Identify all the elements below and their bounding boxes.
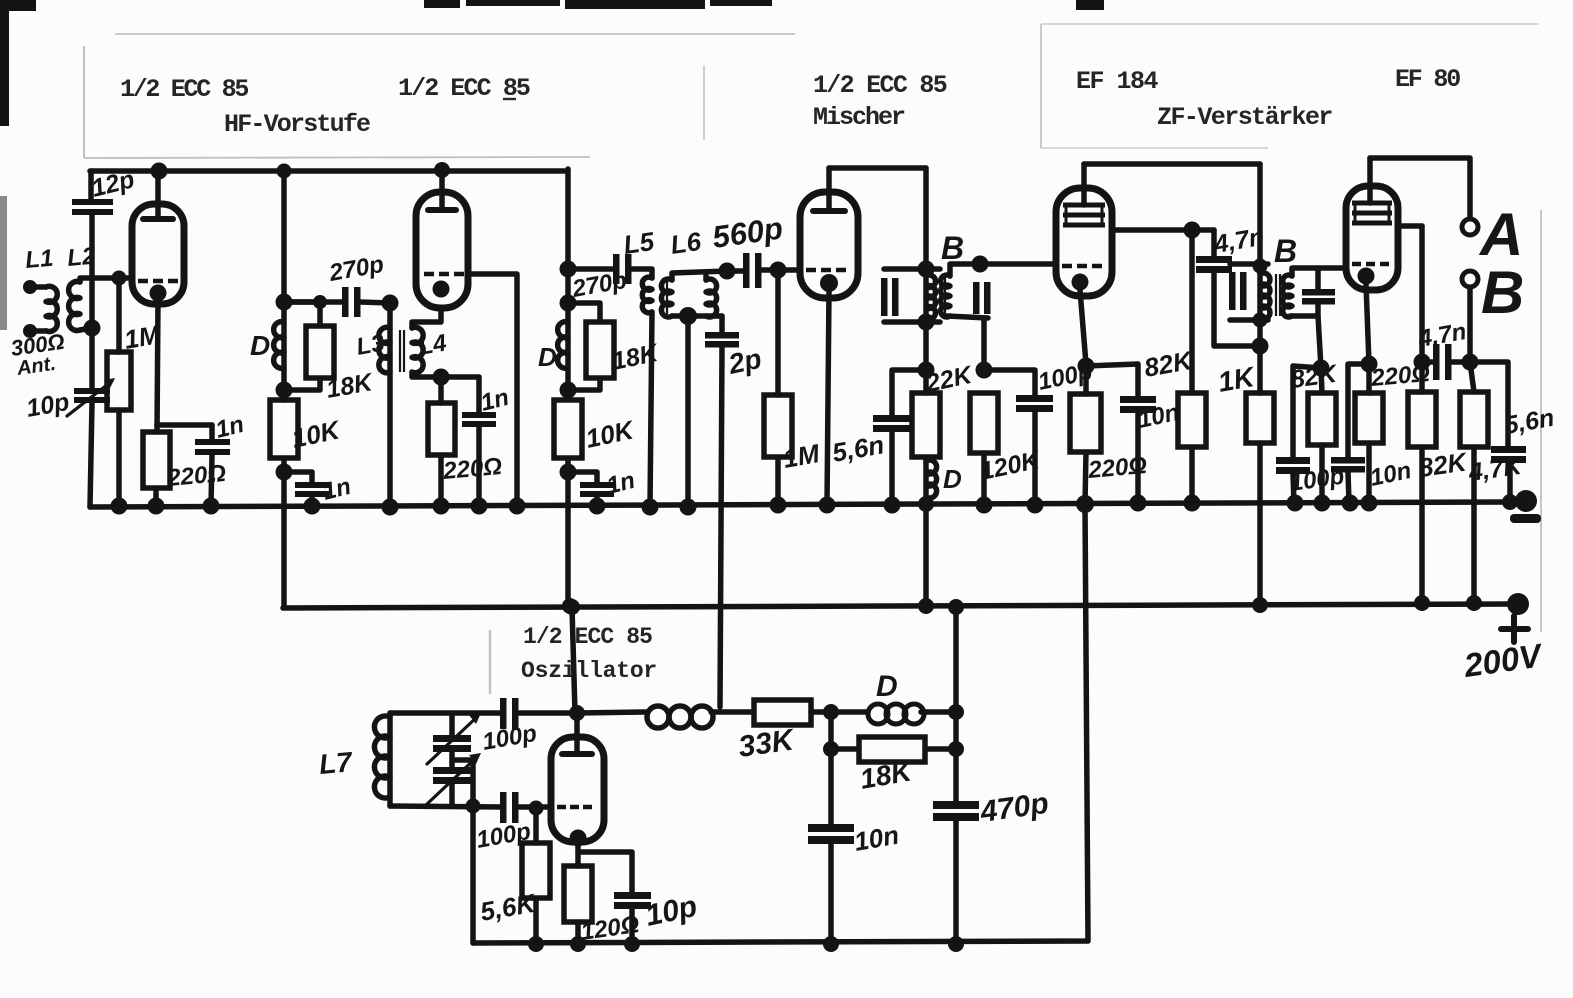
resistor 220Ω stage2	[428, 403, 455, 455]
V5 cathode dot	[1358, 268, 1375, 285]
node: L6 center tap	[679, 307, 697, 325]
wire: V1 plate lead to rail A	[155, 171, 161, 219]
node: 10K bottom / 1n tap	[560, 464, 577, 481]
wire: 100p to plate node	[518, 710, 577, 716]
node: oscillator plate node	[569, 705, 585, 721]
wire: 220Ω top lead	[1083, 366, 1089, 394]
svg-text:220Ω: 220Ω	[165, 460, 227, 492]
V3 grid dashes	[806, 268, 846, 273]
wire: V5 plate rail to terminal A	[1370, 158, 1470, 219]
wire: tank tap down to osc ground rail	[470, 760, 476, 943]
terminal A	[1462, 219, 1478, 235]
wire: rail A left drop to 12p	[88, 171, 94, 201]
wire: 1n bottom to bus	[594, 497, 600, 506]
antenna terminal upper	[23, 280, 37, 294]
wire: 1M bottom lead	[116, 410, 122, 506]
wire: L4 top to V2 cathode	[412, 308, 441, 328]
resistor 1M	[107, 352, 131, 410]
resistor 10K stage1	[270, 400, 298, 458]
node: D right / 470p	[948, 704, 964, 720]
wire: B2 secondary top bar to EF80 grid	[1292, 268, 1346, 276]
ground bus end blob terminal	[1515, 490, 1537, 512]
minus symbol	[1510, 514, 1541, 523]
svg-text:D: D	[943, 464, 962, 494]
wire: V6 plate lead	[574, 713, 580, 754]
node: chain at +200V rail	[918, 598, 934, 614]
wire: V3 plate rail to B-filter	[829, 165, 926, 171]
resistor 5,6K	[522, 843, 550, 898]
resistor 22K mixer grid	[912, 393, 940, 457]
node: 1n at ground bus	[304, 498, 321, 515]
wire: 100p to V6 grid	[518, 804, 551, 810]
node: cathode 220Ω/10n	[1078, 358, 1095, 375]
resistor 1K screen feed	[1246, 393, 1274, 443]
wire: 100p bottom to bus	[1032, 412, 1038, 505]
node: 22K top	[918, 362, 935, 379]
node: 5,6n at ground bus	[1502, 494, 1518, 510]
wire: 4,7K bottom to +200V rail	[1471, 447, 1477, 603]
node: 220Ω at ground bus	[1361, 495, 1378, 512]
node: cathode 220Ω/10n	[1361, 356, 1378, 373]
capacitor 270p stage2	[613, 254, 632, 284]
capacitor 4,7n ratio line	[1433, 344, 1452, 380]
node: D2/18K top	[560, 295, 577, 312]
node: B1 primary bottom	[918, 314, 935, 331]
wire: 18K bottom stub	[568, 378, 600, 390]
+200V supply rail wire	[283, 604, 1517, 608]
capacitor B1 primary	[881, 278, 899, 316]
wire: B1 secondary bottom bar	[947, 316, 988, 318]
wire: tank bottom bar	[390, 806, 502, 807]
transformer core B2	[1276, 274, 1280, 316]
wire: 18K bottom stub	[284, 378, 320, 390]
resistor 1M mixer	[764, 395, 792, 457]
node: oscillator feed at +200V rail	[564, 599, 580, 615]
node: 5,6K at osc rail	[528, 936, 544, 952]
svg-text:D: D	[538, 342, 557, 372]
node: L3 at ground bus	[382, 499, 399, 516]
capacitor 1n cathode bypass	[195, 439, 230, 455]
svg-text:B: B	[1481, 259, 1524, 326]
wire: 1n stage2 grid tap	[568, 472, 597, 482]
wire: 5,6n tap	[892, 370, 926, 415]
capacitor 2p	[705, 332, 739, 348]
wire: V2 grid return right	[468, 274, 517, 506]
resistor 220Ω EF184 cathode	[1070, 394, 1101, 452]
wire: terminal to L1 bottom	[30, 328, 46, 334]
node: 5,6n at ground bus	[884, 497, 901, 514]
wire: L5 bottom to ground bus	[650, 312, 652, 506]
node: cathode at ground bus	[819, 497, 836, 514]
node: 120K/100p top	[976, 362, 993, 379]
wire: tank top bar	[390, 710, 502, 716]
inductor D damping coil stage1	[274, 322, 284, 369]
inductor L5	[642, 277, 652, 313]
label box ZF left edge	[1040, 24, 1042, 148]
V2 grid dashes	[424, 272, 464, 277]
tube V5 EF80	[1346, 186, 1398, 290]
wire: 220Ω bottom lead	[153, 488, 159, 506]
wire: 270p to L5	[631, 269, 652, 278]
capacitor 100p osc plate coupling	[500, 698, 519, 729]
wire: V4 screen wire	[1112, 227, 1214, 233]
wire: node A down to 10n	[828, 712, 834, 824]
wire: L6 bottom bar	[672, 313, 722, 319]
terminal B	[1462, 271, 1478, 287]
node: 33K / D / 18K left	[823, 704, 839, 720]
wire: 220Ω top lead	[1366, 364, 1372, 393]
wire: varicap column bottom	[449, 784, 455, 806]
wire: 1n top lead	[476, 377, 482, 412]
wire: 1n bottom to bus	[476, 427, 482, 506]
V6 cathode dot	[570, 830, 587, 847]
wire: 1n grid tap	[284, 472, 312, 483]
variable capacitor C-var lower	[427, 753, 481, 804]
svg-text:B: B	[1274, 233, 1297, 269]
label box ZF bottom edge	[1041, 147, 1268, 149]
transformer core L3/L4	[400, 330, 404, 372]
wire: 18K top stub	[568, 303, 600, 322]
wire: cap riser	[1315, 268, 1321, 289]
wire: 270p stage2 left	[568, 266, 614, 272]
wire: V3 cathode to ground bus	[827, 291, 829, 505]
B2 primary bottom bar	[1230, 317, 1268, 323]
scan artifact: dark streaks top center	[424, 0, 460, 8]
wire: oscillator plate feed from rail	[572, 607, 575, 713]
capacitor B1 secondary	[973, 282, 991, 314]
wire: L2 top to tube V1 grid	[80, 278, 132, 282]
wire: B2 secondary bottom bar	[1290, 305, 1318, 316]
wire: tank left side	[387, 713, 393, 806]
V4 screen grid bars	[1063, 205, 1105, 225]
V3 cathode dot	[820, 274, 838, 292]
V5 grid bar ticks	[1355, 203, 1389, 223]
svg-text:D: D	[876, 670, 898, 703]
wire: 10p down to ground bus	[90, 403, 92, 507]
node: 120Ω at osc rail	[570, 936, 586, 952]
node: 100p at ground bus	[1027, 497, 1044, 514]
svg-text:EF 184: EF 184	[1076, 67, 1159, 96]
V4 grid dashes	[1062, 264, 1102, 269]
antenna terminal lower	[23, 324, 37, 338]
node: 1M mixer grid tap	[770, 262, 787, 279]
B2 primary top bar	[1230, 261, 1268, 267]
wire: 5,6K bottom to osc rail	[533, 898, 539, 943]
node: 10n at osc rail	[823, 936, 839, 952]
resistor 120K	[970, 393, 998, 453]
wire: node to 1n	[441, 374, 479, 380]
svg-text:D: D	[250, 330, 270, 361]
node: grid node	[529, 801, 544, 816]
resistor 82K EF184 screen	[1178, 393, 1206, 447]
V1 anode plate bar	[143, 216, 173, 222]
V5 screen grid bars	[1352, 203, 1392, 223]
wire: mixer plate/grid-chain vertical x926	[923, 168, 929, 606]
node: chain at ground bus	[918, 496, 934, 512]
wire: plate node to choke	[577, 712, 647, 713]
capacitor 1n stage2 cathode	[462, 412, 496, 427]
V4 grid bar ticks	[1066, 205, 1102, 225]
svg-text:220Ω: 220Ω	[441, 453, 503, 485]
node: screen 82K tap	[1184, 222, 1201, 239]
wire: 120Ω bottom to osc rail	[575, 922, 581, 943]
inductor B1 secondary winding	[941, 275, 950, 317]
wire: D to node B	[921, 709, 956, 715]
node: screen 4,7n junction	[1414, 354, 1431, 371]
wire: V4 cathode down	[1080, 290, 1086, 364]
trimmer capacitor 10p	[67, 378, 115, 416]
capacitor 1n stage2 grid	[580, 482, 614, 497]
wire: 5,6n tap	[1470, 362, 1508, 446]
wire: varicap middle link	[452, 752, 473, 767]
label box oszillator edge	[489, 630, 492, 694]
wire: 100p tap	[1293, 366, 1321, 457]
wire: 33K to node A	[811, 709, 868, 715]
node: EF80 grid network top	[1313, 360, 1330, 377]
node: L4 bottom / 220Ω	[433, 369, 450, 386]
tube V4 EF184	[1056, 188, 1112, 296]
V4 cathode dot	[1072, 274, 1089, 291]
resistor 120Ω cathode	[564, 866, 592, 922]
wire: to 560p	[727, 268, 744, 274]
wire: 4,7n bottom to 1260	[1214, 273, 1260, 346]
node: 1n at ground bus	[589, 498, 606, 515]
node: tap at tank bottom	[466, 799, 481, 814]
inductor L7	[374, 716, 390, 798]
capacitor B2 secondary	[1302, 289, 1335, 305]
label box ZF top edge	[1041, 23, 1539, 25]
wire: 270p coupling left	[284, 299, 343, 305]
resistor 18K osc filter	[859, 737, 925, 762]
wire: EF184 plate feed vertical x1260	[1257, 164, 1263, 606]
svg-text:Oszillator: Oszillator	[521, 658, 657, 684]
svg-text:B: B	[941, 230, 964, 266]
node: 82K at ground bus	[1314, 495, 1331, 512]
svg-text:A: A	[1478, 201, 1523, 268]
capacitor 5,6n output	[1491, 446, 1526, 463]
wire: 220Ω bottom lead	[438, 455, 444, 506]
wire: V2 plate lead to rail A	[439, 169, 445, 210]
wire: 220Ω top lead	[438, 377, 444, 403]
wire: 4,7n to B line	[1422, 359, 1470, 365]
wire: V5 screen wire	[1398, 223, 1422, 229]
node: 1K at +200V rail	[1252, 597, 1268, 613]
wire: 82K bottom to bus	[1189, 447, 1195, 503]
wire: V6 cathode down	[575, 842, 581, 866]
svg-text:1M: 1M	[781, 438, 823, 474]
node: cathode line at ground bus	[1076, 495, 1094, 513]
transformer core B1	[941, 276, 945, 316]
wire: V4 plate lead	[1081, 164, 1087, 205]
scan artifact: black bar top-left edge	[0, 0, 9, 126]
wire: secondary bottom lead	[1318, 316, 1321, 368]
wire: 1n to ground bus	[309, 497, 315, 506]
inductor L6 right winding	[706, 279, 717, 317]
wire: V5 plate lead	[1367, 158, 1373, 203]
wire: oscillator ground rail	[473, 504, 1088, 943]
resistor 82K EF80 screen	[1408, 392, 1436, 447]
wire: V3 plate lead	[826, 168, 832, 211]
wire: 12p down to L2 node	[89, 215, 95, 328]
capacitor 560p	[743, 253, 762, 288]
node: 470p at osc rail	[948, 936, 964, 952]
wire: 82K bottom to bus	[1319, 445, 1325, 503]
wire: 2p line L6 bottom down to oscillator choke	[720, 316, 722, 707]
inductor L4	[412, 327, 423, 372]
svg-text:L5: L5	[622, 226, 657, 260]
svg-text:1K: 1K	[1216, 361, 1258, 398]
node: 1M at ground bus	[770, 497, 787, 514]
node: L5 at ground bus	[642, 499, 659, 516]
tube V1 1/2 ECC85 HF-Vorstufe	[132, 204, 184, 304]
plus symbol	[1501, 616, 1528, 642]
inductor L1 antenna coil	[46, 286, 57, 331]
node: chain at rail A	[277, 164, 292, 179]
svg-text:L2: L2	[66, 243, 97, 272]
svg-text:Mischer: Mischer	[813, 103, 905, 132]
resistor 220Ω cathode	[143, 432, 170, 488]
node: L6 tap at ground bus	[680, 499, 697, 516]
node: B2 primary bottom	[1253, 313, 1268, 328]
inductor L2 secondary coil	[69, 282, 80, 331]
label box A top edge	[115, 33, 795, 35]
capacitor 100p	[1016, 395, 1053, 412]
node: 4,7K at +200V rail	[1466, 595, 1482, 611]
wire: 82K screen top lead	[1189, 230, 1195, 393]
node: 18K left	[823, 741, 839, 757]
node: secondary top	[972, 256, 989, 273]
V6 grid dashes	[557, 805, 592, 810]
capacitor 100p osc grid	[500, 792, 519, 823]
wire: 18K right lead	[925, 746, 956, 752]
V2 cathode dot	[433, 281, 450, 298]
node: 4,7n junction	[1252, 338, 1269, 355]
svg-text:L1: L1	[24, 245, 54, 274]
wire: node B up to +200V rail	[953, 607, 959, 712]
node: 18K right	[948, 741, 964, 757]
resistor 220Ω EF80 cathode	[1355, 393, 1383, 443]
node: D/18K bottom	[276, 382, 293, 399]
inductor B1 primary winding	[926, 275, 935, 319]
wire: 82K top lead	[1321, 368, 1322, 393]
resistor 18K stage1	[306, 326, 334, 378]
capacitor 10n osc	[808, 824, 854, 844]
node: 1n at ground bus	[203, 498, 220, 515]
tube V3 1/2 ECC85 Mischer	[800, 192, 858, 298]
V2 anode plate bar	[428, 207, 456, 213]
capacitor 270p stage1	[342, 287, 361, 317]
wire: V1 cathode down	[157, 301, 158, 432]
wire: node B down to 470p	[953, 712, 959, 801]
node: 1M at ground bus	[111, 498, 128, 515]
wire: 4,7n top lead	[1211, 230, 1217, 256]
wire: L2 bottom to node	[80, 328, 92, 330]
wire: 220Ω bottom to bus	[1366, 443, 1372, 503]
resistor 18K stage2	[586, 322, 614, 378]
wire: stage2 grid-chain vertical x568	[565, 169, 571, 607]
V6 anode plate bar	[562, 751, 592, 757]
wire: V4 plate rail	[1084, 161, 1260, 167]
svg-text:HF-Vorstufe: HF-Vorstufe	[224, 110, 370, 139]
node: grid return at ground bus	[509, 498, 526, 515]
inductor D damping coil stage2	[558, 322, 568, 369]
wire: node down to 10p trimmer	[89, 328, 95, 389]
V5 grid dashes	[1352, 262, 1389, 267]
node: 220Ω at ground bus	[433, 498, 450, 515]
wire: screen vertical to +200V rail	[1419, 226, 1425, 603]
V1 cathode dot	[150, 285, 167, 302]
B1 primary top bar	[884, 266, 940, 272]
node: rail A corner to chain top	[560, 261, 577, 278]
+200V rail end blob terminal	[1507, 593, 1529, 615]
capacitor 470p osc	[933, 801, 979, 821]
inductor L3	[379, 327, 390, 372]
wire: L6 top bar	[672, 271, 727, 280]
node: V2 plate at rail A	[434, 162, 450, 178]
node: B2 primary top	[1253, 259, 1268, 274]
wire: 1M top lead	[116, 278, 122, 352]
wire: 470p bottom to osc rail	[953, 820, 959, 943]
wire: 5,6n bottom to bus	[889, 432, 895, 505]
label box A left edge	[83, 46, 85, 158]
inductor B2 secondary winding	[1283, 275, 1292, 317]
wire: 270p to L3	[360, 302, 390, 303]
wire: 5,6K grid leak top	[533, 808, 539, 843]
wire: terminal B down	[1467, 287, 1473, 362]
node: 100p at ground bus	[1287, 495, 1304, 512]
node: 82K at ground bus	[1184, 495, 1201, 512]
wire: 10n tap	[1348, 364, 1369, 457]
inductor RF choke	[647, 706, 713, 728]
label box A bottom edge	[84, 157, 590, 158]
node: B line junction	[1462, 354, 1479, 371]
tube V6 1/2 ECC85 Oszillator	[551, 737, 604, 842]
wire: L6 center tap to ground bus	[685, 316, 691, 506]
inductor B2 primary winding	[1260, 273, 1270, 319]
wire: plate supply rail A	[90, 168, 568, 174]
transformer core L5/L6	[663, 278, 667, 314]
wire: 18K left lead	[831, 746, 859, 752]
resistor 4,7K	[1460, 392, 1488, 447]
wire: 1n top lead	[209, 425, 215, 440]
capacitor 10p cathode	[614, 892, 651, 909]
wire: 1M mixer grid resistor top lead	[775, 270, 781, 395]
label box A/B divider right edge	[703, 66, 705, 140]
scan artifact: gray bar left edge	[0, 196, 7, 330]
tube V2 1/2 ECC85	[416, 192, 468, 308]
wire: choke to 33K	[711, 709, 754, 715]
svg-text:L3: L3	[354, 329, 387, 361]
wire: 1M bottom lead	[775, 457, 781, 505]
svg-text:EF 80: EF 80	[1395, 65, 1460, 94]
svg-text:L6: L6	[669, 226, 704, 260]
wire: 100p tap	[984, 370, 1035, 395]
underline under 8 of second ECC 85	[503, 98, 516, 100]
svg-text:ZF-Verstärker: ZF-Verstärker	[1157, 103, 1332, 132]
wire: B1 secondary top bar to EF184 grid	[950, 264, 1056, 276]
svg-text:1/2 ECC 85: 1/2 ECC 85	[120, 75, 248, 104]
node: L3 top	[382, 295, 399, 312]
wire: cathode to 1n branch	[157, 422, 212, 428]
wire: 4,7K top lead	[1470, 362, 1474, 392]
variable capacitor C-var upper	[427, 713, 481, 764]
node: grid / 1M junction	[112, 271, 127, 286]
node: 10p at osc rail	[624, 936, 640, 952]
node: D2/18K bottom	[560, 382, 577, 399]
node: 120K at ground bus	[976, 497, 993, 514]
wire: 10n bottom to bus	[1135, 413, 1141, 503]
node: 82K at +200V rail	[1414, 595, 1430, 611]
